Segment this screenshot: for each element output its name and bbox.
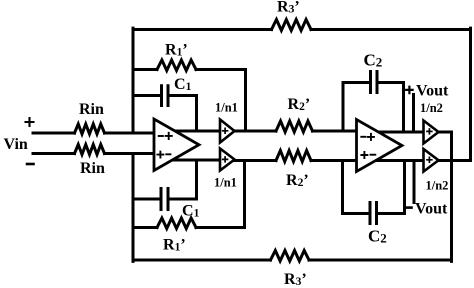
- resistor Rin top: [75, 124, 105, 134]
- resistor R3' top: [272, 20, 312, 31]
- label op-amp U1 bottom-row + sign: [157, 152, 163, 158]
- svg-text:R1’: R1’: [165, 42, 188, 59]
- buffer 1/n2 bottom body: [424, 149, 439, 172]
- wire: C1 top right lead: [170, 94, 197, 97]
- label buffer 1/n1 top + sign: [223, 128, 228, 133]
- buffer 1/n1 top body: [220, 120, 235, 143]
- label op-amp U1 top-row - sign: [159, 135, 163, 137]
- wire: R1' top vertical down to buffer output node: [244, 70, 247, 132]
- wire: inner right vertical (from +out buffer down to bottom rail): [450, 132, 453, 261]
- label buffer 1/n2 bottom + sign: [427, 157, 432, 162]
- wire: left vertical lower (node B: op-amp U1 - input feedback bus): [132, 154, 135, 262]
- op-amp U1 body: [154, 119, 199, 171]
- wire: -Vout tap: [413, 161, 416, 203]
- capacitor C1 top plates: [162, 86, 169, 106]
- wire: op-amp U1 bottom output to buffer 1/n1 bottom: [173, 159, 221, 162]
- svg-text:C2: C2: [364, 51, 383, 70]
- svg-text:R2’: R2’: [286, 172, 309, 189]
- resistor R3' bottom: [271, 251, 310, 262]
- svg-text:1/n1: 1/n1: [215, 101, 238, 115]
- svg-text:Vout: Vout: [416, 83, 449, 100]
- wire: C2 top right lead: [379, 81, 404, 84]
- wire: C1 bottom vertical up to op-amp output: [195, 160, 198, 199]
- svg-text:Vin: Vin: [4, 136, 28, 153]
- svg-text:Rin: Rin: [79, 101, 104, 118]
- svg-text:Rin: Rin: [80, 160, 105, 177]
- label op-amp U2 bottom-row - sign: [371, 154, 376, 156]
- wire: Rin bottom to op-amp U1: [105, 152, 155, 155]
- label buffer 1/n2 top + sign: [427, 129, 432, 134]
- resistor R1' top zigzag: [157, 60, 196, 71]
- buffer 1/n2 top body: [424, 121, 439, 144]
- wire: buffer 1/n2 top output to inner right vertical: [439, 131, 452, 134]
- label op-amp U1 top-row + sign: [166, 133, 172, 139]
- label -Vout minus sign: [405, 206, 411, 209]
- wire: R1' bottom to feedback corner: [196, 226, 245, 229]
- wire: C1 bottom right lead: [170, 198, 197, 201]
- svg-text:Vout: Vout: [415, 201, 448, 218]
- wire: left vertical upper (node A: op-amp U1 + input feedback bus): [132, 28, 135, 133]
- wire: C2 top vertical down to op-amp U2 output: [402, 83, 405, 133]
- resistor Rin bottom: [75, 145, 105, 155]
- resistor R1' top: wire from left bus: [133, 68, 157, 71]
- label input + sign: [26, 118, 34, 126]
- resistor R1' bottom zigzag: [157, 218, 196, 229]
- label op-amp U2 top-row + sign: [368, 134, 374, 140]
- capacitor C1 bottom plates: [161, 189, 168, 210]
- wire: R1' bottom vertical up to buffer output node: [243, 161, 246, 228]
- wire: C1 top vertical down to op-amp output: [195, 96, 198, 132]
- capacitor C1 bottom: wire from left bus: [133, 198, 160, 201]
- label op-amp U2 top-row - sign: [361, 136, 365, 138]
- wire: +Vout tap: [412, 95, 415, 133]
- resistor R2' bottom: [276, 151, 311, 162]
- label +Vout plus sign: [406, 87, 412, 93]
- wire: Rin top to op-amp U1: [105, 132, 155, 135]
- svg-text:1/n2: 1/n2: [420, 101, 443, 115]
- label op-amp U2 bottom-row + sign: [361, 152, 367, 158]
- label input - sign: [27, 163, 34, 166]
- wire: C2 bottom right lead: [378, 212, 405, 215]
- svg-text:1/n1: 1/n1: [214, 176, 237, 190]
- wire: buffer 1/n1 bottom output to R2' bottom: [235, 159, 277, 162]
- svg-text:C2: C2: [368, 227, 387, 246]
- wire: C2 bottom vertical up to op-amp U2 output: [403, 161, 406, 214]
- wire: bottom feedback rail left part: [133, 259, 271, 262]
- label op-amp U1 bottom-row - sign: [166, 153, 170, 155]
- label buffer 1/n1 bottom + sign: [223, 157, 228, 162]
- svg-text:C1: C1: [174, 76, 192, 93]
- wire: op-amp U2 bottom output to buffer 1/n2 bottom: [376, 159, 424, 162]
- svg-text:1/n2: 1/n2: [426, 179, 449, 193]
- buffer 1/n1 bottom body: [220, 149, 235, 171]
- svg-text:R1’: R1’: [163, 237, 186, 254]
- capacitor C2 top plates: [371, 72, 378, 93]
- wire: C2 bottom left lead: [343, 212, 369, 215]
- wire: op-amp U2 top output to buffer 1/n2 top: [379, 131, 424, 134]
- wire: R2' top to op-amp U2: [313, 130, 357, 133]
- capacitor C2 bottom plates: [370, 203, 377, 224]
- capacitor C2 top: vertical from op-amp U2 input: [342, 83, 345, 132]
- op-amp U2 body: [357, 120, 403, 172]
- capacitor C1 top: wire from left bus: [133, 94, 160, 97]
- wire: top feedback rail left part: [133, 28, 272, 31]
- svg-text:R3’: R3’: [284, 271, 307, 288]
- wire: buffer 1/n2 bottom output to outer right vertical: [439, 159, 471, 162]
- resistor R1' bottom: wire from left bus: [133, 226, 157, 229]
- wire: Vin+ input lead: [33, 132, 75, 135]
- wire: R1' top to feedback corner: [196, 68, 246, 71]
- wire: bottom feedback rail right part: [309, 259, 452, 262]
- wire: op-amp U1 top output to buffer 1/n1 top: [175, 130, 220, 133]
- svg-text:R3’: R3’: [277, 0, 300, 16]
- wire: buffer 1/n1 top output to R2' top: [235, 130, 277, 133]
- resistor R2' top: [276, 121, 313, 132]
- wire: R2' bottom to op-amp U2: [311, 159, 357, 162]
- svg-text:C1: C1: [182, 203, 200, 220]
- wire: top feedback rail right part: [311, 28, 471, 31]
- capacitor C2 bottom: vertical from op-amp U2 input: [341, 161, 344, 214]
- wire: outer right vertical (from top rail down to -out buffer output): [469, 28, 472, 160]
- wire: Vin- input lead: [33, 152, 75, 155]
- svg-text:R2’: R2’: [288, 96, 311, 113]
- wire: C2 top left lead: [343, 81, 369, 84]
